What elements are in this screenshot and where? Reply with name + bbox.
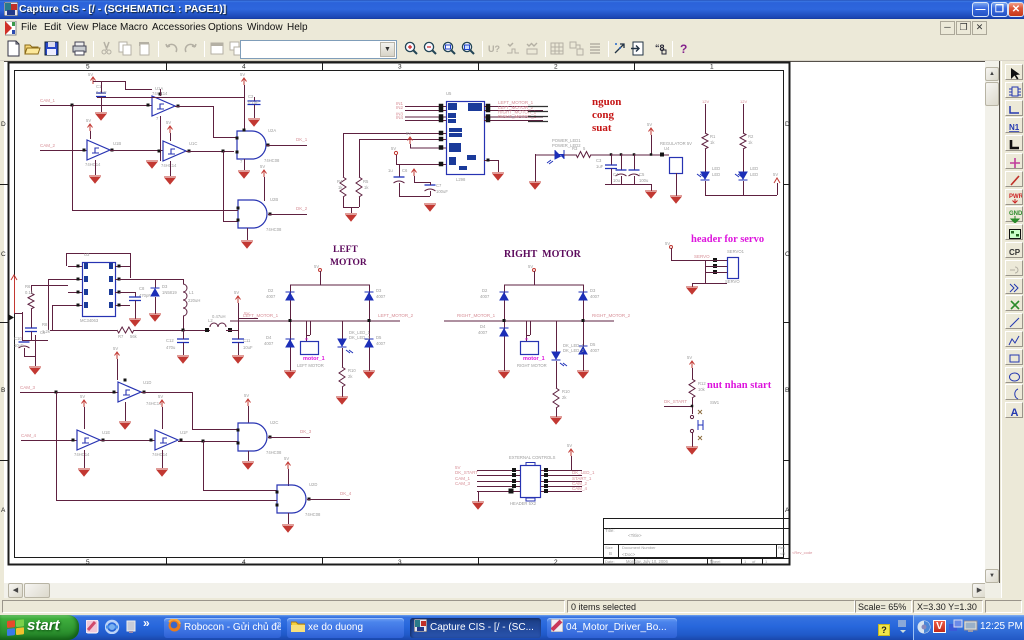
svg-text:DK_START: DK_START [664,399,687,404]
svg-text:LEFT_MOTOR_2: LEFT_MOTOR_2 [378,313,414,318]
svg-text:R10: R10 [562,389,570,394]
svg-text:SERVO: SERVO [694,254,710,259]
svg-text:U1F: U1F [180,430,188,435]
svg-text:5V: 5V [158,394,163,399]
svg-text:A: A [1,507,6,514]
svg-text:74HC08: 74HC08 [266,450,282,455]
svg-text:LEFT MOTOR: LEFT MOTOR [297,363,324,368]
svg-text:4: 4 [242,559,246,566]
svg-text:R8: R8 [42,322,48,327]
svg-text:5V: 5V [88,72,93,77]
svg-text:D3: D3 [376,288,382,293]
svg-text:R10: R10 [348,368,356,373]
svg-text:CAM_4: CAM_4 [572,486,588,491]
svg-text:2: 2 [554,64,558,71]
svg-text:4007: 4007 [264,341,274,346]
svg-text:C4: C4 [613,172,619,177]
svg-text:3: 3 [398,559,402,566]
svg-text:IN2: IN2 [396,105,404,110]
svg-text:74HC14: 74HC14 [85,162,101,167]
svg-text:B: B [609,551,612,556]
svg-text:D3: D3 [590,288,596,293]
svg-text:470pF: 470pF [139,293,151,298]
svg-text:R4: R4 [337,179,343,184]
svg-text:DK_LED_2: DK_LED_2 [349,335,371,340]
svg-text:1u: 1u [388,168,393,173]
svg-text:<R: <R [780,551,785,556]
svg-text:LED: LED [750,172,758,177]
svg-text:Date:: Date: [605,559,615,564]
svg-text:“8: “8 [655,43,665,53]
svg-text:U5: U5 [446,91,452,96]
svg-text:CAM_1: CAM_1 [40,98,56,103]
svg-text:D4: D4 [480,324,486,329]
svg-text:10k: 10k [698,387,706,392]
svg-text:5V: 5V [314,264,319,269]
svg-text:CAM_2: CAM_2 [40,143,56,148]
svg-text:C2: C2 [248,94,254,99]
svg-text:5V: 5V [166,120,171,125]
svg-text:R7: R7 [118,334,124,339]
svg-text:5V: 5V [80,394,85,399]
svg-text:74HC14: 74HC14 [152,452,168,457]
svg-text:DK_3: DK_3 [300,429,312,434]
svg-text:Sheet: Sheet [710,559,721,564]
svg-text:R3: R3 [572,146,578,151]
svg-text:D2: D2 [482,288,488,293]
svg-text:Monday, July 10, 2006: Monday, July 10, 2006 [626,559,668,564]
svg-text:U2C: U2C [270,420,278,425]
svg-text:C10: C10 [14,336,22,341]
svg-text:Size: Size [605,545,614,550]
svg-text:L1: L1 [189,290,194,295]
svg-text:C8: C8 [139,286,145,291]
svg-text:R12: R12 [698,381,706,386]
svg-text:R6: R6 [25,284,31,289]
svg-text:0.1uF: 0.1uF [96,90,107,95]
svg-text:12V: 12V [740,99,747,104]
svg-text:C7: C7 [436,183,442,188]
svg-text:10u: 10u [613,178,621,183]
svg-text:5V: 5V [567,443,572,448]
svg-text:C12: C12 [166,338,174,343]
svg-text:DK_LED_2: DK_LED_2 [563,348,585,353]
svg-text:5V: 5V [113,346,118,351]
svg-text:REGULATOR 5V: REGULATOR 5V [660,141,692,146]
svg-text:D5: D5 [376,335,382,340]
svg-text:MC34063: MC34063 [80,318,99,323]
svg-text:B: B [1,387,5,394]
svg-text:D3: D3 [162,284,168,289]
svg-text:5V: 5V [260,164,265,169]
svg-text:CAM_4: CAM_4 [21,433,37,438]
svg-text:RIGHT_MOTOR_1: RIGHT_MOTOR_1 [457,313,496,318]
svg-text:5V: 5V [406,131,411,136]
svg-text:C: C [1,251,6,258]
svg-text:cong: cong [592,109,615,121]
svg-text:<Title>: <Title> [628,533,642,538]
svg-text:4007: 4007 [376,341,386,346]
svg-text:header for servo: header for servo [691,234,764,245]
svg-text:1N5819: 1N5819 [162,290,177,295]
svg-text:5V: 5V [240,72,245,77]
svg-text:SERVO: SERVO [725,279,740,284]
svg-text:U1E: U1E [102,430,110,435]
svg-text:LED: LED [750,166,758,171]
svg-text:1uF: 1uF [596,164,604,169]
svg-text:N1: N1 [1009,123,1020,132]
svg-text:motor_1: motor_1 [303,356,325,362]
svg-text:DK_1: DK_1 [296,137,308,142]
svg-text:1: 1 [710,64,714,71]
svg-text:LEFT: LEFT [333,245,358,255]
svg-text:DK_2: DK_2 [296,206,308,211]
svg-text:LED: LED [712,166,720,171]
svg-text:<Rev_code: <Rev_code [792,550,813,555]
svg-text:4007: 4007 [590,294,600,299]
svg-text:A: A [1011,407,1019,419]
svg-text:U1D: U1D [143,380,151,385]
svg-text:C11: C11 [243,338,251,343]
svg-text:DK_4: DK_4 [340,491,352,496]
svg-text:U4: U4 [664,146,670,151]
svg-text:suat: suat [592,122,612,134]
svg-text:D: D [785,121,790,128]
svg-text:CAM_3: CAM_3 [20,385,36,390]
svg-text:nguon: nguon [592,96,621,108]
svg-text:4007: 4007 [266,294,276,299]
svg-text:U2B: U2B [270,197,278,202]
svg-text:100u: 100u [639,178,649,183]
svg-text:4007: 4007 [480,294,490,299]
svg-text:?: ? [680,42,687,56]
svg-text:Title:: Title: [605,528,615,533]
svg-text:RIGHT_MOTOR_2: RIGHT_MOTOR_2 [592,313,631,318]
svg-text:0.47uH: 0.47uH [212,314,226,319]
svg-text:5V: 5V [665,241,670,246]
svg-text:L298: L298 [456,177,466,182]
svg-text:4007: 4007 [590,348,600,353]
svg-text:U1C: U1C [189,141,197,146]
svg-text:5V: 5V [86,118,91,123]
svg-text:1.2k: 1.2k [42,329,51,334]
svg-text:4007: 4007 [478,330,488,335]
svg-text:motor_1: motor_1 [523,356,545,362]
svg-text:0.1k: 0.1k [25,290,34,295]
svg-text:C3: C3 [596,158,602,163]
svg-text:10uF: 10uF [14,343,24,348]
svg-text:74HC14: 74HC14 [74,452,90,457]
svg-text:74HC14: 74HC14 [161,163,177,168]
svg-text:5V: 5V [773,172,778,177]
svg-text:4007: 4007 [376,294,386,299]
svg-text:470u: 470u [166,345,176,350]
svg-text:nut nhan start: nut nhan start [707,380,772,391]
svg-text:10uF: 10uF [243,345,253,350]
svg-text:R1: R1 [710,134,716,139]
svg-text:HEADER 5X2: HEADER 5X2 [510,501,537,506]
svg-text:EXTERNAL CONTROLS: EXTERNAL CONTROLS [509,455,556,460]
svg-text:Rev: Rev [778,545,785,550]
svg-text:U2A: U2A [268,128,276,133]
svg-text:SW1: SW1 [710,400,720,405]
svg-text:LEFT_MOTOR_1: LEFT_MOTOR_1 [243,313,279,318]
svg-text:RIGHT MOTOR: RIGHT MOTOR [504,249,582,260]
svg-text:R5: R5 [363,179,369,184]
svg-text:2: 2 [554,559,558,566]
svg-text:U1B: U1B [113,141,121,146]
svg-text:MOTOR: MOTOR [330,258,367,268]
svg-text:Document Number: Document Number [622,545,656,550]
svg-text:CAM_3: CAM_3 [455,481,471,486]
svg-text:5V: 5V [687,355,692,360]
svg-text:D5: D5 [590,342,596,347]
svg-text:74HC08: 74HC08 [305,512,321,517]
svg-text:C5: C5 [639,172,645,177]
svg-text:5: 5 [86,64,90,71]
svg-text:IN4: IN4 [396,115,404,120]
svg-text:74HC08: 74HC08 [266,227,282,232]
svg-text:220uH: 220uH [188,298,200,303]
svg-text:R2: R2 [748,134,754,139]
svg-text:D4: D4 [266,335,272,340]
svg-text:A: A [785,507,790,514]
svg-text:4: 4 [242,64,246,71]
svg-text:RIGHT MOTOR: RIGHT MOTOR [517,363,547,368]
svg-text:D2: D2 [268,288,274,293]
svg-text:<Doc>: <Doc> [622,552,636,557]
svg-text:LED: LED [712,172,720,177]
svg-text:CP: CP [1009,248,1021,257]
svg-text:C: C [785,251,790,258]
svg-text:C1: C1 [96,84,102,89]
svg-text:U3: U3 [84,252,90,257]
svg-text:56k: 56k [130,334,138,339]
svg-text:5V: 5V [234,290,239,295]
svg-text:5V: 5V [244,393,249,398]
svg-text:12V: 12V [702,99,709,104]
svg-text:0.1uF: 0.1uF [248,100,259,105]
svg-text:D: D [1,121,6,128]
svg-text:U?: U? [488,44,500,54]
svg-text:DK_START: DK_START [455,470,478,475]
svg-text:5V: 5V [647,122,652,127]
svg-text:5V: 5V [391,146,396,151]
svg-text:74HC08: 74HC08 [264,158,280,163]
svg-text:3: 3 [398,64,402,71]
svg-text:5V: 5V [284,456,289,461]
svg-text:SERVO1: SERVO1 [727,249,745,254]
svg-text:C6: C6 [402,168,408,173]
svg-text:5V: 5V [528,264,533,269]
svg-text:100uF: 100uF [436,189,448,194]
svg-text:U2D: U2D [309,482,317,487]
svg-text:DK_LED_1: DK_LED_1 [572,470,595,475]
svg-text:5: 5 [86,559,90,566]
svg-text:B: B [785,387,789,394]
